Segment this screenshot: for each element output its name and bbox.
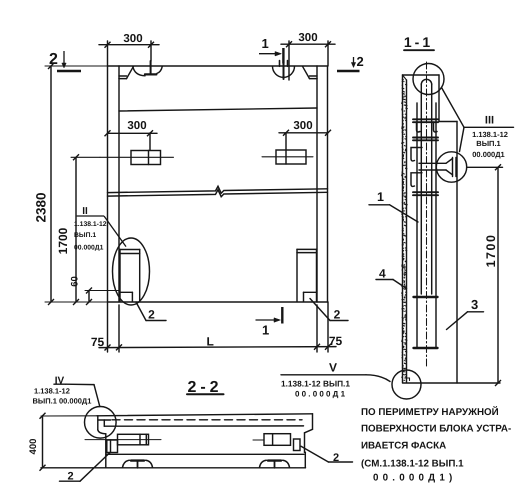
svg-text:1-1: 1-1 [404, 34, 433, 50]
svg-text:1700: 1700 [484, 234, 498, 268]
svg-text:00.000Д1): 00.000Д1) [373, 473, 456, 484]
svg-text:2380: 2380 [34, 192, 49, 222]
svg-text:1.138.1-12: 1.138.1-12 [472, 130, 508, 139]
svg-text:2-2: 2-2 [187, 379, 222, 396]
svg-text:300: 300 [298, 32, 317, 44]
svg-text:(СМ.1.138.1-12 ВЫП.1: (СМ.1.138.1-12 ВЫП.1 [361, 459, 464, 470]
svg-text:1.138.1-12: 1.138.1-12 [34, 387, 70, 396]
svg-text:2: 2 [68, 471, 74, 483]
svg-text:300: 300 [123, 33, 142, 45]
svg-text:300: 300 [293, 120, 312, 132]
svg-text:00.000Д1: 00.000Д1 [472, 150, 504, 159]
svg-text:ПО ПЕРИМЕТРУ НАРУЖНОЙ: ПО ПЕРИМЕТРУ НАРУЖНОЙ [361, 406, 499, 418]
svg-text:00.000Д1: 00.000Д1 [295, 390, 347, 399]
svg-text:ПОВЕРХНОСТИ БЛОКА УСТРА-: ПОВЕРХНОСТИ БЛОКА УСТРА- [361, 424, 511, 435]
svg-text:1.138.1-12: 1.138.1-12 [74, 221, 107, 228]
svg-text:2: 2 [357, 54, 364, 69]
svg-text:60: 60 [70, 276, 81, 287]
svg-text:1: 1 [377, 190, 384, 204]
svg-text:3: 3 [471, 297, 478, 312]
svg-text:ВЫП.1 00.000Д1: ВЫП.1 00.000Д1 [33, 397, 92, 406]
svg-text:00.000Д1: 00.000Д1 [74, 244, 104, 251]
svg-text:III: III [485, 115, 494, 127]
svg-text:2: 2 [334, 308, 341, 322]
svg-text:4: 4 [379, 267, 386, 281]
svg-text:400: 400 [28, 439, 39, 455]
svg-text:IV: IV [55, 376, 65, 387]
svg-text:75: 75 [329, 334, 343, 348]
svg-text:1700: 1700 [56, 227, 70, 254]
svg-text:ВЫП.1: ВЫП.1 [74, 232, 96, 239]
svg-text:1: 1 [262, 323, 269, 338]
svg-text:L: L [207, 335, 214, 349]
svg-text:300: 300 [127, 120, 146, 132]
svg-text:ИВАЕТСЯ ФАСКА: ИВАЕТСЯ ФАСКА [361, 441, 446, 452]
svg-text:2: 2 [333, 452, 339, 464]
svg-text:1: 1 [262, 36, 269, 51]
svg-text:75: 75 [91, 335, 105, 349]
svg-text:V: V [329, 361, 337, 375]
svg-text:2: 2 [49, 51, 58, 68]
svg-text:2: 2 [148, 308, 155, 322]
svg-text:II: II [82, 206, 88, 217]
svg-text:1.138.1-12 ВЫП.1: 1.138.1-12 ВЫП.1 [281, 379, 350, 389]
svg-text:ВЫП.1: ВЫП.1 [476, 139, 500, 148]
